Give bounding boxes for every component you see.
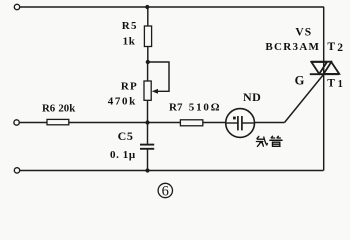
- svg-text:C5: C5: [118, 129, 134, 143]
- svg-text:470k: 470k: [108, 96, 137, 108]
- svg-text:1: 1: [338, 79, 343, 90]
- svg-text:BCR3AM: BCR3AM: [265, 41, 320, 53]
- svg-text:ND: ND: [243, 90, 261, 104]
- svg-text:R6: R6: [42, 103, 56, 115]
- svg-text:G: G: [295, 73, 305, 87]
- svg-text:T: T: [327, 77, 335, 89]
- svg-text:20k: 20k: [58, 103, 75, 115]
- svg-text:R5: R5: [122, 20, 138, 32]
- svg-text:R7: R7: [169, 102, 183, 114]
- svg-text:6: 6: [162, 184, 169, 200]
- svg-text:1k: 1k: [123, 35, 136, 47]
- svg-text:2: 2: [337, 42, 343, 54]
- svg-text:0. 1μ: 0. 1μ: [110, 149, 136, 161]
- svg-text:T: T: [327, 41, 335, 53]
- svg-text:510Ω: 510Ω: [189, 102, 222, 114]
- svg-text:RP: RP: [121, 81, 138, 93]
- svg-text:VS: VS: [295, 27, 312, 39]
